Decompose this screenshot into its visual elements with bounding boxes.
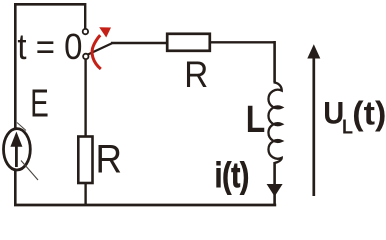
svg-text:(t): (t) xyxy=(352,96,386,133)
svg-text:R: R xyxy=(96,138,123,182)
svg-text:i(t): i(t) xyxy=(215,156,250,195)
svg-text:R: R xyxy=(184,53,208,95)
svg-text:L: L xyxy=(246,99,265,141)
svg-text:E: E xyxy=(30,83,49,126)
svg-text:t = 0: t = 0 xyxy=(17,26,82,67)
